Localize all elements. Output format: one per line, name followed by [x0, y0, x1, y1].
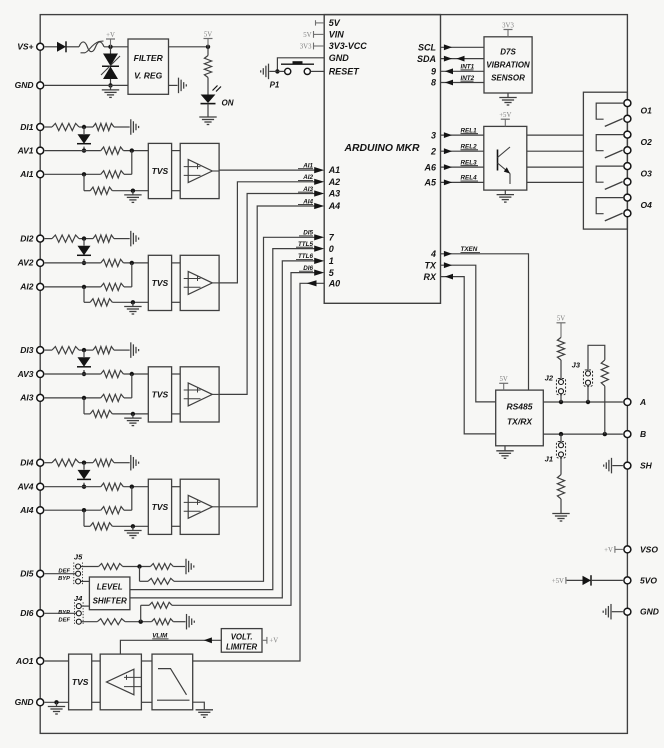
wire R12 to ground — [560, 499, 562, 514]
resistor R4e (burden) — [90, 523, 112, 530]
relay contact block outline — [583, 92, 627, 229]
svg-text:SH: SH — [640, 461, 653, 471]
ground below D7S — [499, 93, 516, 105]
resistor R17 (DI6 pulldown) — [152, 619, 174, 625]
diode D3 — [583, 575, 592, 585]
svg-text:LIMITER: LIMITER — [226, 643, 258, 652]
wire DI5 to J5 — [45, 573, 76, 575]
svg-text:0: 0 — [329, 244, 334, 254]
TVS suppressor block 1 — [148, 143, 171, 198]
svg-text:+V: +V — [106, 32, 115, 39]
wire TVS to op-amp block 4 — [172, 487, 181, 527]
wire TVS to op-amp AO1 — [92, 661, 101, 702]
svg-text:SHIFTER: SHIFTER — [93, 596, 127, 605]
resistor R18 (DI6 bypass) — [149, 602, 172, 608]
wire AI1 row — [45, 151, 132, 177]
svg-text:SENSOR: SENSOR — [491, 74, 525, 83]
wire J1 to R12 — [560, 457, 562, 475]
jumper J3 — [572, 361, 593, 403]
TVS suppressor block 2 — [148, 255, 171, 310]
node +5V at driver — [499, 112, 511, 126]
svg-text:VIN: VIN — [329, 30, 345, 40]
wire RESET pin — [311, 70, 325, 72]
wire relay coil 1 — [527, 134, 584, 136]
terminal DI5 — [20, 569, 43, 579]
diode D1 — [57, 41, 66, 52]
svg-text:DI6: DI6 — [20, 608, 34, 618]
svg-text:5V: 5V — [204, 31, 212, 38]
relay contact K2 — [596, 135, 623, 158]
chassis ground at DI4 — [131, 455, 139, 471]
wire VS+ to diode D1 — [45, 46, 57, 48]
resistor R10 (bias high) — [557, 337, 564, 360]
svg-text:D7S: D7S — [500, 48, 516, 57]
resistor R4d — [101, 507, 124, 514]
resistor R4a — [52, 459, 79, 466]
resistor R2c — [101, 259, 124, 266]
wire TTL5 to pin 0 — [130, 241, 324, 590]
svg-text:TX/RX: TX/RX — [507, 417, 533, 427]
svg-text:ON: ON — [222, 99, 234, 108]
resistor R1d — [101, 171, 124, 178]
wire AV1 row — [45, 148, 149, 152]
vibration sensor U3 (D7S) — [484, 37, 532, 93]
svg-text:A3: A3 — [328, 189, 341, 199]
terminal GND (AO1) — [15, 697, 44, 707]
wire DI3 row — [45, 348, 130, 352]
fuse F1 (PTC) — [79, 41, 104, 53]
wire TVS to op-amp block 2 — [172, 263, 181, 302]
svg-text:DI5: DI5 — [20, 569, 34, 579]
svg-text:SCL: SCL — [418, 43, 436, 53]
voltage regulator U2 (FILTER / V. REG) — [128, 39, 169, 94]
terminal AO1 — [15, 656, 44, 666]
resistor R3e (burden) — [90, 410, 112, 417]
wire AV3 row — [45, 372, 149, 376]
op-amp U1b — [180, 143, 219, 198]
TVS suppressor block 4 — [148, 479, 171, 534]
wire 5V pin stub — [316, 20, 325, 25]
junction dot on GND rail — [108, 83, 112, 87]
resistor R14 (DI5 pulldown) — [150, 564, 173, 570]
chassis ground at J4 — [187, 614, 195, 630]
slope limiter U8 — [152, 654, 193, 710]
wire RX — [441, 274, 496, 434]
svg-text:AO1: AO1 — [15, 656, 34, 666]
wire line A — [543, 400, 623, 404]
svg-text:A4: A4 — [328, 201, 341, 211]
wire REL4 — [441, 175, 484, 186]
node 5V at RS485 — [499, 376, 508, 390]
svg-text:GND: GND — [640, 607, 659, 617]
svg-text:J1: J1 — [545, 455, 553, 464]
terminal O2 — [624, 131, 652, 154]
terminal A — [624, 397, 646, 407]
svg-text:B: B — [640, 429, 646, 439]
wire op-amp to slope limiter — [141, 661, 152, 702]
ground at block 1 — [124, 191, 141, 203]
svg-text:2: 2 — [430, 146, 436, 156]
svg-text:TVS: TVS — [152, 166, 169, 176]
wire J4 bypass branch — [141, 605, 150, 621]
terminal DI3 — [20, 345, 43, 355]
relay driver U4 — [484, 126, 527, 190]
svg-text:AV2: AV2 — [17, 258, 34, 268]
wire AI1 to burden resistor — [84, 174, 90, 190]
terminal AI3 — [19, 393, 43, 403]
wire AO1 row — [45, 660, 69, 662]
svg-text:J2: J2 — [545, 374, 554, 383]
wire INT2 — [441, 75, 485, 86]
resistor R1c — [101, 147, 124, 154]
terminal DI4 — [20, 458, 43, 468]
svg-text:FILTER: FILTER — [134, 53, 164, 63]
svg-text:VSO: VSO — [640, 544, 658, 554]
node +5V at 5VO — [552, 577, 567, 585]
wire R10 to J2 — [560, 360, 562, 379]
svg-text:5: 5 — [329, 268, 335, 278]
ground below D2 — [102, 85, 119, 97]
wire relay coil 2 — [527, 150, 584, 152]
wire regulator ground pin — [169, 84, 178, 86]
svg-text:AV3: AV3 — [17, 369, 34, 379]
wire AI4 output to pin A4 — [219, 198, 324, 507]
svg-text:5V: 5V — [500, 376, 508, 383]
wire J4 BYP pin to level shifter — [81, 605, 89, 607]
relay contact K1 — [596, 103, 623, 126]
wire SDA (bidirectional) — [441, 56, 485, 62]
wire relay coil 4 — [527, 181, 584, 183]
wire AI4 row — [45, 487, 132, 513]
terminal VSO — [624, 544, 658, 554]
svg-text:DI3: DI3 — [20, 345, 34, 355]
resistor R5 (LED) — [204, 56, 211, 78]
wire DI6 to J4 — [45, 612, 77, 614]
svg-text:VS+: VS+ — [17, 42, 33, 52]
svg-text:A0: A0 — [328, 279, 341, 289]
svg-text:P1: P1 — [270, 81, 280, 90]
svg-text:4: 4 — [430, 249, 436, 259]
resistor R2a — [52, 235, 79, 242]
svg-text:5V: 5V — [303, 32, 311, 39]
wire GND to chassis ground — [612, 611, 623, 613]
chassis ground at DI2 — [131, 231, 139, 247]
wire J3 to R11 — [588, 345, 605, 371]
ground below LED — [199, 114, 216, 125]
svg-text:VIBRATION: VIBRATION — [486, 61, 530, 70]
diode D4c (clamp) — [77, 463, 91, 489]
svg-text:AV1: AV1 — [17, 145, 34, 155]
svg-text:DI1: DI1 — [20, 122, 34, 132]
wire AI2 output to pin A2 — [219, 174, 324, 283]
svg-text:SDA: SDA — [417, 54, 436, 64]
node 5V at VIN pin — [303, 31, 324, 39]
wire DI6 bus to pin 5 — [172, 265, 324, 605]
resistor R12 (bias low) — [557, 475, 564, 499]
wire regulator 5V output — [169, 46, 209, 48]
node +V at VSO — [604, 546, 623, 554]
wire AI2 to burden resistor — [84, 287, 90, 302]
terminal GND (input) — [15, 80, 44, 90]
terminal AV2 — [17, 258, 44, 268]
chassis ground at DI3 — [131, 342, 139, 358]
svg-text:TX: TX — [424, 260, 436, 270]
jumper J1 — [545, 434, 566, 463]
jumper J2 — [545, 374, 566, 403]
wire AI1 output to pin A1 — [219, 162, 324, 173]
svg-text:+V: +V — [269, 638, 278, 645]
svg-text:J3: J3 — [572, 361, 581, 370]
terminal DI6 — [20, 608, 43, 618]
svg-text:A: A — [639, 397, 646, 407]
svg-text:RESET: RESET — [329, 67, 361, 77]
ground at block 2 — [124, 302, 141, 314]
wire AI4 to burden resistor — [84, 510, 90, 526]
wire burden to TVS ground — [112, 412, 148, 416]
diode D3c (clamp) — [77, 350, 91, 376]
svg-text:AV4: AV4 — [17, 482, 34, 492]
wire slope limiter ground — [193, 702, 205, 709]
svg-text:AI3: AI3 — [19, 393, 34, 403]
svg-text:O2: O2 — [641, 137, 653, 147]
svg-text:GND: GND — [329, 53, 350, 63]
wire TX — [441, 262, 496, 402]
chassis ground at J5 — [186, 559, 194, 575]
svg-text:GND: GND — [15, 697, 34, 707]
svg-text:AI1: AI1 — [19, 169, 34, 179]
svg-text:LEVEL: LEVEL — [97, 582, 123, 591]
pushbutton P1 — [270, 61, 314, 89]
wire D3 to 5VO — [591, 579, 623, 581]
resistor R1b — [93, 123, 114, 130]
svg-text:O4: O4 — [641, 200, 653, 210]
op-amp U7 (output buffer) — [100, 654, 141, 710]
svg-text:RX: RX — [423, 272, 436, 282]
ground at AO1 — [48, 702, 65, 714]
wire TVS to op-amp block 3 — [172, 374, 181, 414]
terminal AV3 — [17, 369, 44, 379]
terminal O3 — [624, 163, 652, 186]
resistor R16 (DI6 series) — [97, 619, 125, 625]
terminal AI1 — [19, 169, 43, 179]
svg-text:TVS: TVS — [152, 502, 169, 512]
wire GND rail to regulator — [45, 84, 128, 86]
svg-text:5V: 5V — [557, 316, 565, 323]
resistor R11 (termination) — [601, 360, 608, 386]
wire line B — [543, 432, 623, 436]
chassis ground at regulator — [179, 78, 187, 94]
svg-text:DI4: DI4 — [20, 458, 34, 468]
svg-text:J5: J5 — [74, 553, 83, 562]
svg-text:V. REG: V. REG — [134, 71, 162, 81]
resistor R4c — [101, 483, 124, 490]
svg-text:ARDUINO MKR: ARDUINO MKR — [343, 143, 420, 154]
svg-text:DEF: DEF — [58, 617, 70, 623]
wire INT1 — [441, 64, 485, 75]
jumper J5 — [58, 553, 83, 586]
resistor R2e (burden) — [90, 299, 112, 306]
resistor R3b — [93, 347, 114, 354]
wire J5 bypass branch — [140, 567, 149, 582]
svg-text:A2: A2 — [328, 177, 341, 187]
diode D1c (clamp) — [77, 127, 91, 153]
svg-text:TVS: TVS — [152, 278, 169, 288]
ground below RS485 — [496, 446, 513, 459]
terminal O1 — [624, 100, 652, 123]
wire DI5 bus to pin 7 — [174, 230, 324, 582]
node 5V — [204, 31, 213, 49]
wire AI2 row — [45, 263, 132, 289]
diode D2c (clamp) — [77, 239, 91, 265]
wire SH to chassis ground — [612, 465, 623, 467]
svg-text:3V3: 3V3 — [502, 22, 514, 29]
op-amp U4b — [180, 479, 219, 534]
svg-text:3V3: 3V3 — [300, 43, 312, 50]
wire SCL — [441, 44, 485, 50]
wire R11 to line B — [604, 386, 606, 434]
op-amp U3b — [180, 367, 219, 422]
svg-text:RS485: RS485 — [507, 402, 533, 412]
wire TXEN — [441, 246, 529, 390]
terminal O4 — [624, 194, 652, 217]
svg-text:5V: 5V — [329, 18, 341, 28]
svg-text:O3: O3 — [641, 168, 653, 178]
wire REL2 — [441, 144, 484, 155]
node 3V3 at VCC pin — [300, 43, 324, 51]
op-amp U2b — [180, 255, 219, 310]
relay contact K3 — [596, 166, 623, 189]
node +V — [106, 32, 115, 49]
svg-text:3: 3 — [431, 130, 436, 140]
chassis ground at output GND — [603, 604, 611, 620]
ground at block 4 — [124, 526, 141, 538]
node 3V3 at D7S — [502, 22, 514, 37]
terminal SH — [624, 461, 653, 471]
ground below R12 — [552, 514, 569, 522]
terminal DI1 — [20, 122, 43, 132]
wire REL3 — [441, 159, 484, 170]
resistor R3a — [52, 347, 79, 354]
voltage limiter U9 — [221, 629, 262, 653]
wire F1 to node +V — [104, 46, 128, 48]
node 5V at J2 — [557, 316, 566, 338]
terminal GND (output) — [624, 607, 659, 617]
wire AI3 row — [45, 374, 132, 400]
resistor R3c — [101, 370, 124, 377]
chassis ground at DI1 — [131, 119, 139, 135]
wire R5 to LED — [207, 47, 209, 95]
terminal AI2 — [19, 282, 43, 292]
relay contact K4 — [596, 198, 623, 221]
resistor R15 (DI5 bypass) — [148, 578, 174, 584]
wire AI3 output to pin A3 — [219, 186, 324, 395]
wire VLIM — [120, 633, 221, 655]
wire REL1 — [441, 127, 484, 138]
resistor R4b — [93, 459, 114, 466]
terminal AV1 — [17, 145, 44, 155]
terminal B — [624, 429, 646, 439]
svg-text:7: 7 — [329, 233, 335, 243]
resistor R1a — [52, 123, 79, 130]
svg-text:9: 9 — [431, 67, 436, 77]
wire GND row AO1 — [45, 700, 69, 704]
Arduino MKR module U1 — [324, 15, 440, 304]
ground below driver — [497, 190, 514, 202]
ground at slope limiter — [196, 709, 213, 717]
TVS suppressor AO1 — [69, 654, 92, 710]
svg-text:J4: J4 — [74, 594, 83, 603]
svg-text:8: 8 — [431, 78, 436, 88]
wire TVS to op-amp block 1 — [172, 151, 181, 191]
wire J5 BYP pin to level shifter — [81, 580, 90, 582]
chassis ground at P1 — [261, 64, 269, 80]
wire +5V to diode D3 — [566, 579, 583, 581]
resistor R2b — [93, 235, 114, 242]
wire burden to TVS ground — [112, 524, 148, 528]
wire TTL6 to pin 1 — [130, 253, 324, 598]
jumper J4 — [58, 594, 83, 626]
wire J4 DEF row — [81, 620, 185, 624]
svg-text:GND: GND — [15, 80, 34, 90]
svg-text:TVS: TVS — [152, 389, 169, 399]
svg-text:BYP: BYP — [58, 576, 70, 582]
wire burden to TVS ground — [112, 189, 148, 193]
terminal 5VO — [624, 575, 657, 585]
TVS diode D2 (bidirectional) — [101, 47, 120, 86]
node +V at voltage limiter — [262, 637, 278, 645]
terminal DI2 — [20, 233, 43, 243]
wire DI1 row — [45, 125, 130, 129]
transistor Q1 — [498, 147, 511, 184]
svg-text:A1: A1 — [328, 165, 341, 175]
svg-text:DI2: DI2 — [20, 233, 34, 243]
ground at block 3 — [124, 414, 141, 426]
svg-text:TVS: TVS — [72, 677, 89, 687]
wire GND pin to P1 — [269, 58, 324, 74]
svg-text:AI4: AI4 — [19, 505, 34, 515]
LED DL1 (ON) — [201, 86, 234, 115]
resistor R13 (DI5 series) — [99, 564, 123, 570]
svg-text:3V3-VCC: 3V3-VCC — [329, 41, 368, 51]
chassis ground at SH — [604, 458, 612, 474]
wire AV4 row — [45, 485, 149, 489]
svg-text:1: 1 — [329, 256, 334, 266]
wire DI4 row — [45, 461, 130, 465]
svg-text:+5V: +5V — [552, 578, 564, 585]
svg-text:5VO: 5VO — [640, 575, 657, 585]
wire J5 DEF row — [81, 564, 185, 568]
wire relay coil 3 — [527, 166, 584, 168]
svg-text:A5: A5 — [423, 178, 436, 188]
svg-text:AI2: AI2 — [19, 282, 34, 292]
wire D1 to fuse F1 — [67, 46, 80, 48]
resistor R3d — [101, 394, 124, 401]
wire AV2 row — [45, 261, 149, 265]
level shifter U6 — [89, 577, 129, 610]
TVS suppressor block 3 — [148, 367, 171, 422]
resistor R2d — [101, 283, 124, 290]
resistor R1e (burden) — [90, 187, 112, 194]
terminal AI4 — [19, 505, 43, 515]
wire AI3 to burden resistor — [84, 398, 90, 414]
terminal VS+ — [17, 42, 44, 52]
wire burden to TVS ground — [112, 300, 148, 304]
terminal AV4 — [17, 482, 44, 492]
wire A0 to slope limiter — [193, 280, 325, 661]
svg-text:A6: A6 — [423, 162, 436, 172]
wire DI2 row — [45, 236, 130, 240]
svg-text:O1: O1 — [641, 105, 653, 115]
